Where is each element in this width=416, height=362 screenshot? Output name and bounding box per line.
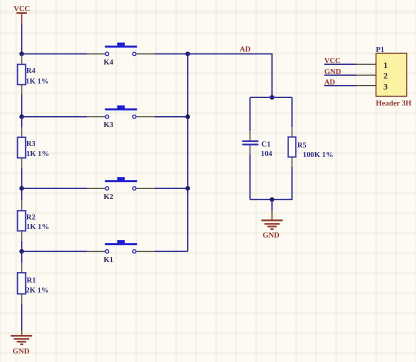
ground (left GND) bbox=[11, 331, 33, 356]
svg-text:2K 1%: 2K 1% bbox=[26, 286, 49, 295]
wire R5 top branch bbox=[291, 97, 293, 127]
wire node B to R3 bbox=[21, 117, 23, 128]
svg-text:R4: R4 bbox=[26, 66, 35, 75]
wire C1 bottom branch bbox=[249, 154, 251, 199]
wire C1 top branch bbox=[249, 97, 251, 131]
capacitor C1 bbox=[242, 131, 272, 158]
svg-text:R2: R2 bbox=[26, 212, 35, 221]
pushbutton K3 bbox=[104, 105, 138, 129]
wire K4 pin 2 to bus bbox=[136, 53, 154, 55]
wire R3 to node C bbox=[21, 168, 23, 189]
svg-text:Header 3H: Header 3H bbox=[376, 98, 412, 107]
svg-text:3: 3 bbox=[383, 81, 387, 91]
resistor R4 bbox=[18, 54, 49, 95]
svg-text:1: 1 bbox=[383, 60, 387, 70]
power symbol VCC bbox=[14, 4, 30, 24]
wire R2 to node D bbox=[21, 241, 23, 252]
ground (middle GND) bbox=[261, 211, 282, 239]
pushbutton K4 bbox=[104, 43, 138, 67]
wire K1 pin 2 to bus corner bbox=[136, 250, 154, 252]
wire RC top bbox=[250, 96, 292, 98]
svg-text:K4: K4 bbox=[104, 57, 114, 66]
resistor R2 bbox=[18, 201, 50, 241]
svg-text:P1: P1 bbox=[376, 45, 385, 54]
svg-text:1K 1%: 1K 1% bbox=[26, 76, 49, 85]
pushbutton K1 bbox=[104, 240, 138, 264]
svg-text:VCC: VCC bbox=[14, 4, 30, 13]
node G (bus-K2 junction) bbox=[185, 186, 190, 191]
svg-text:K1: K1 bbox=[104, 255, 114, 264]
wire node B to K3 pin 1 bbox=[22, 116, 88, 118]
wire R5 bottom branch bbox=[250, 167, 292, 200]
node F (bus-K3 junction) bbox=[185, 114, 190, 119]
wire node A to K4 pin 1 bbox=[22, 53, 88, 55]
node D (rail-K1 junction) bbox=[19, 249, 24, 254]
resistor R5 bbox=[288, 127, 333, 167]
svg-text:R5: R5 bbox=[297, 140, 306, 149]
wire R4 to node B bbox=[21, 95, 23, 117]
wire K3 pin 2 to bus bbox=[136, 116, 154, 118]
svg-text:R3: R3 bbox=[26, 139, 35, 148]
wire AD to P1 pin 3 bbox=[324, 85, 356, 87]
node H (RC top junction) bbox=[270, 95, 275, 100]
node B (rail-K3 junction) bbox=[19, 114, 24, 119]
svg-text:100K 1%: 100K 1% bbox=[303, 150, 334, 159]
resistor R3 bbox=[18, 127, 50, 167]
svg-text:1K 1%: 1K 1% bbox=[26, 222, 49, 231]
svg-text:C1: C1 bbox=[261, 139, 270, 148]
connector P1 bbox=[376, 45, 412, 107]
wire node D to R1 bbox=[21, 251, 23, 262]
wire K2 pin 2 to bus bbox=[136, 187, 154, 189]
wire node C to K2 pin 1 bbox=[22, 187, 88, 189]
wire AD net (bus top to RC drop) bbox=[188, 54, 272, 98]
wire VCC to node A bbox=[21, 24, 23, 54]
pushbutton K2 bbox=[104, 177, 138, 201]
svg-text:K2: K2 bbox=[104, 192, 114, 201]
node A (rail-K4 junction) bbox=[19, 52, 24, 57]
wire bus vertical bbox=[187, 54, 189, 252]
wire node C to R2 bbox=[21, 188, 23, 200]
node C (rail-K2 junction) bbox=[19, 186, 24, 191]
svg-text:R1: R1 bbox=[27, 275, 36, 284]
resistor R1 bbox=[18, 263, 49, 304]
svg-text:AD: AD bbox=[240, 44, 251, 53]
svg-text:1K 1%: 1K 1% bbox=[26, 149, 49, 158]
wire RC bottom to ground bbox=[271, 200, 273, 212]
svg-text:104: 104 bbox=[261, 149, 273, 158]
wire R1 to ground bbox=[21, 304, 23, 331]
node E (bus top junction) bbox=[185, 52, 190, 57]
wire node D to K1 pin 1 bbox=[22, 250, 88, 252]
wire VCC to P1 pin 1 bbox=[324, 63, 356, 65]
svg-text:K3: K3 bbox=[104, 120, 114, 129]
wire GND to P1 pin 2 bbox=[324, 74, 356, 76]
svg-text:GND: GND bbox=[13, 346, 30, 355]
svg-text:GND: GND bbox=[263, 230, 280, 239]
node I (RC bottom junction) bbox=[270, 197, 275, 202]
svg-text:2: 2 bbox=[383, 71, 387, 81]
